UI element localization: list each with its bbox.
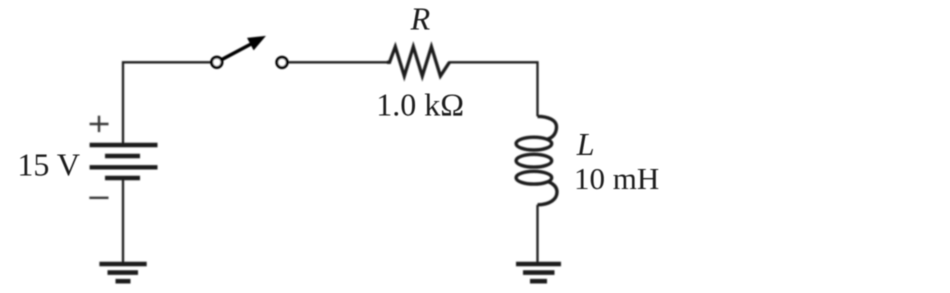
inductor L coil bbox=[516, 116, 557, 204]
battery − polarity label bbox=[89, 197, 108, 199]
wire resistor to inductor bbox=[449, 62, 538, 116]
wire battery to ground bbox=[122, 178, 124, 263]
wire inductor to ground bbox=[536, 205, 538, 263]
svg-text:15 V: 15 V bbox=[17, 146, 80, 182]
switch SW right contact bbox=[277, 57, 287, 67]
battery + polarity label bbox=[90, 116, 109, 132]
svg-text:R: R bbox=[410, 0, 431, 36]
switch SW arm arrow bbox=[222, 37, 264, 60]
voltage source 15 V battery bbox=[90, 145, 158, 178]
ground (inductor side) bbox=[516, 264, 561, 281]
svg-text:L: L bbox=[576, 126, 595, 162]
wire battery top to switch bbox=[123, 62, 210, 143]
wire switch to resistor bbox=[288, 61, 387, 63]
svg-text:1.0 kΩ: 1.0 kΩ bbox=[376, 87, 464, 123]
switch SW left contact bbox=[212, 57, 222, 67]
svg-text:10 mH: 10 mH bbox=[574, 161, 659, 196]
ground (battery side) bbox=[99, 264, 146, 281]
resistor R bbox=[387, 47, 449, 76]
